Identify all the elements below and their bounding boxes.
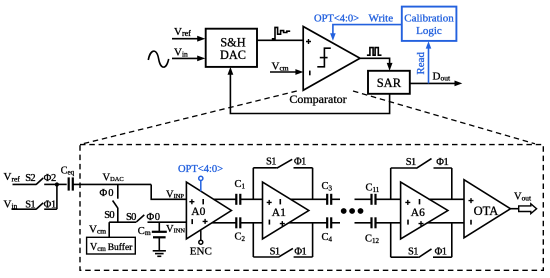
svg-text:Comparator: Comparator	[289, 92, 346, 106]
svg-text:S0: S0	[126, 212, 136, 223]
svg-text:A6: A6	[411, 207, 425, 219]
svg-text:OTA: OTA	[474, 204, 499, 218]
svg-text:S&H: S&H	[220, 35, 245, 49]
svg-text:S1: S1	[408, 247, 419, 258]
svg-text:S1: S1	[406, 157, 417, 168]
svg-text:Φ1: Φ1	[294, 156, 306, 167]
svg-text:S0: S0	[104, 210, 114, 221]
svg-text:A1: A1	[272, 207, 286, 219]
svg-text:Calibration: Calibration	[404, 12, 454, 24]
svg-text:OPT<4:0>: OPT<4:0>	[314, 14, 359, 25]
svg-text:Φ0: Φ0	[100, 188, 114, 199]
svg-text:Vout: Vout	[514, 192, 532, 203]
svg-text:Φ1: Φ1	[435, 247, 447, 258]
svg-text:Cm: Cm	[138, 226, 151, 237]
svg-text:S2: S2	[25, 173, 35, 184]
svg-text:ENC: ENC	[190, 246, 212, 258]
svg-text:Vcm Buffer: Vcm Buffer	[90, 242, 133, 253]
svg-text:A0: A0	[191, 206, 205, 218]
svg-text:Write: Write	[369, 13, 394, 25]
svg-text:Φ1: Φ1	[294, 247, 306, 258]
svg-text:SAR: SAR	[377, 76, 402, 90]
svg-text:OPT<4:0>: OPT<4:0>	[178, 164, 223, 175]
svg-text:S1: S1	[266, 156, 277, 167]
svg-text:DAC: DAC	[220, 48, 246, 62]
svg-text:Φ2: Φ2	[44, 173, 57, 184]
svg-text:Read: Read	[415, 52, 427, 75]
svg-text:Φ1: Φ1	[436, 157, 448, 168]
svg-text:Logic: Logic	[416, 25, 442, 37]
svg-text:S1: S1	[270, 247, 281, 258]
